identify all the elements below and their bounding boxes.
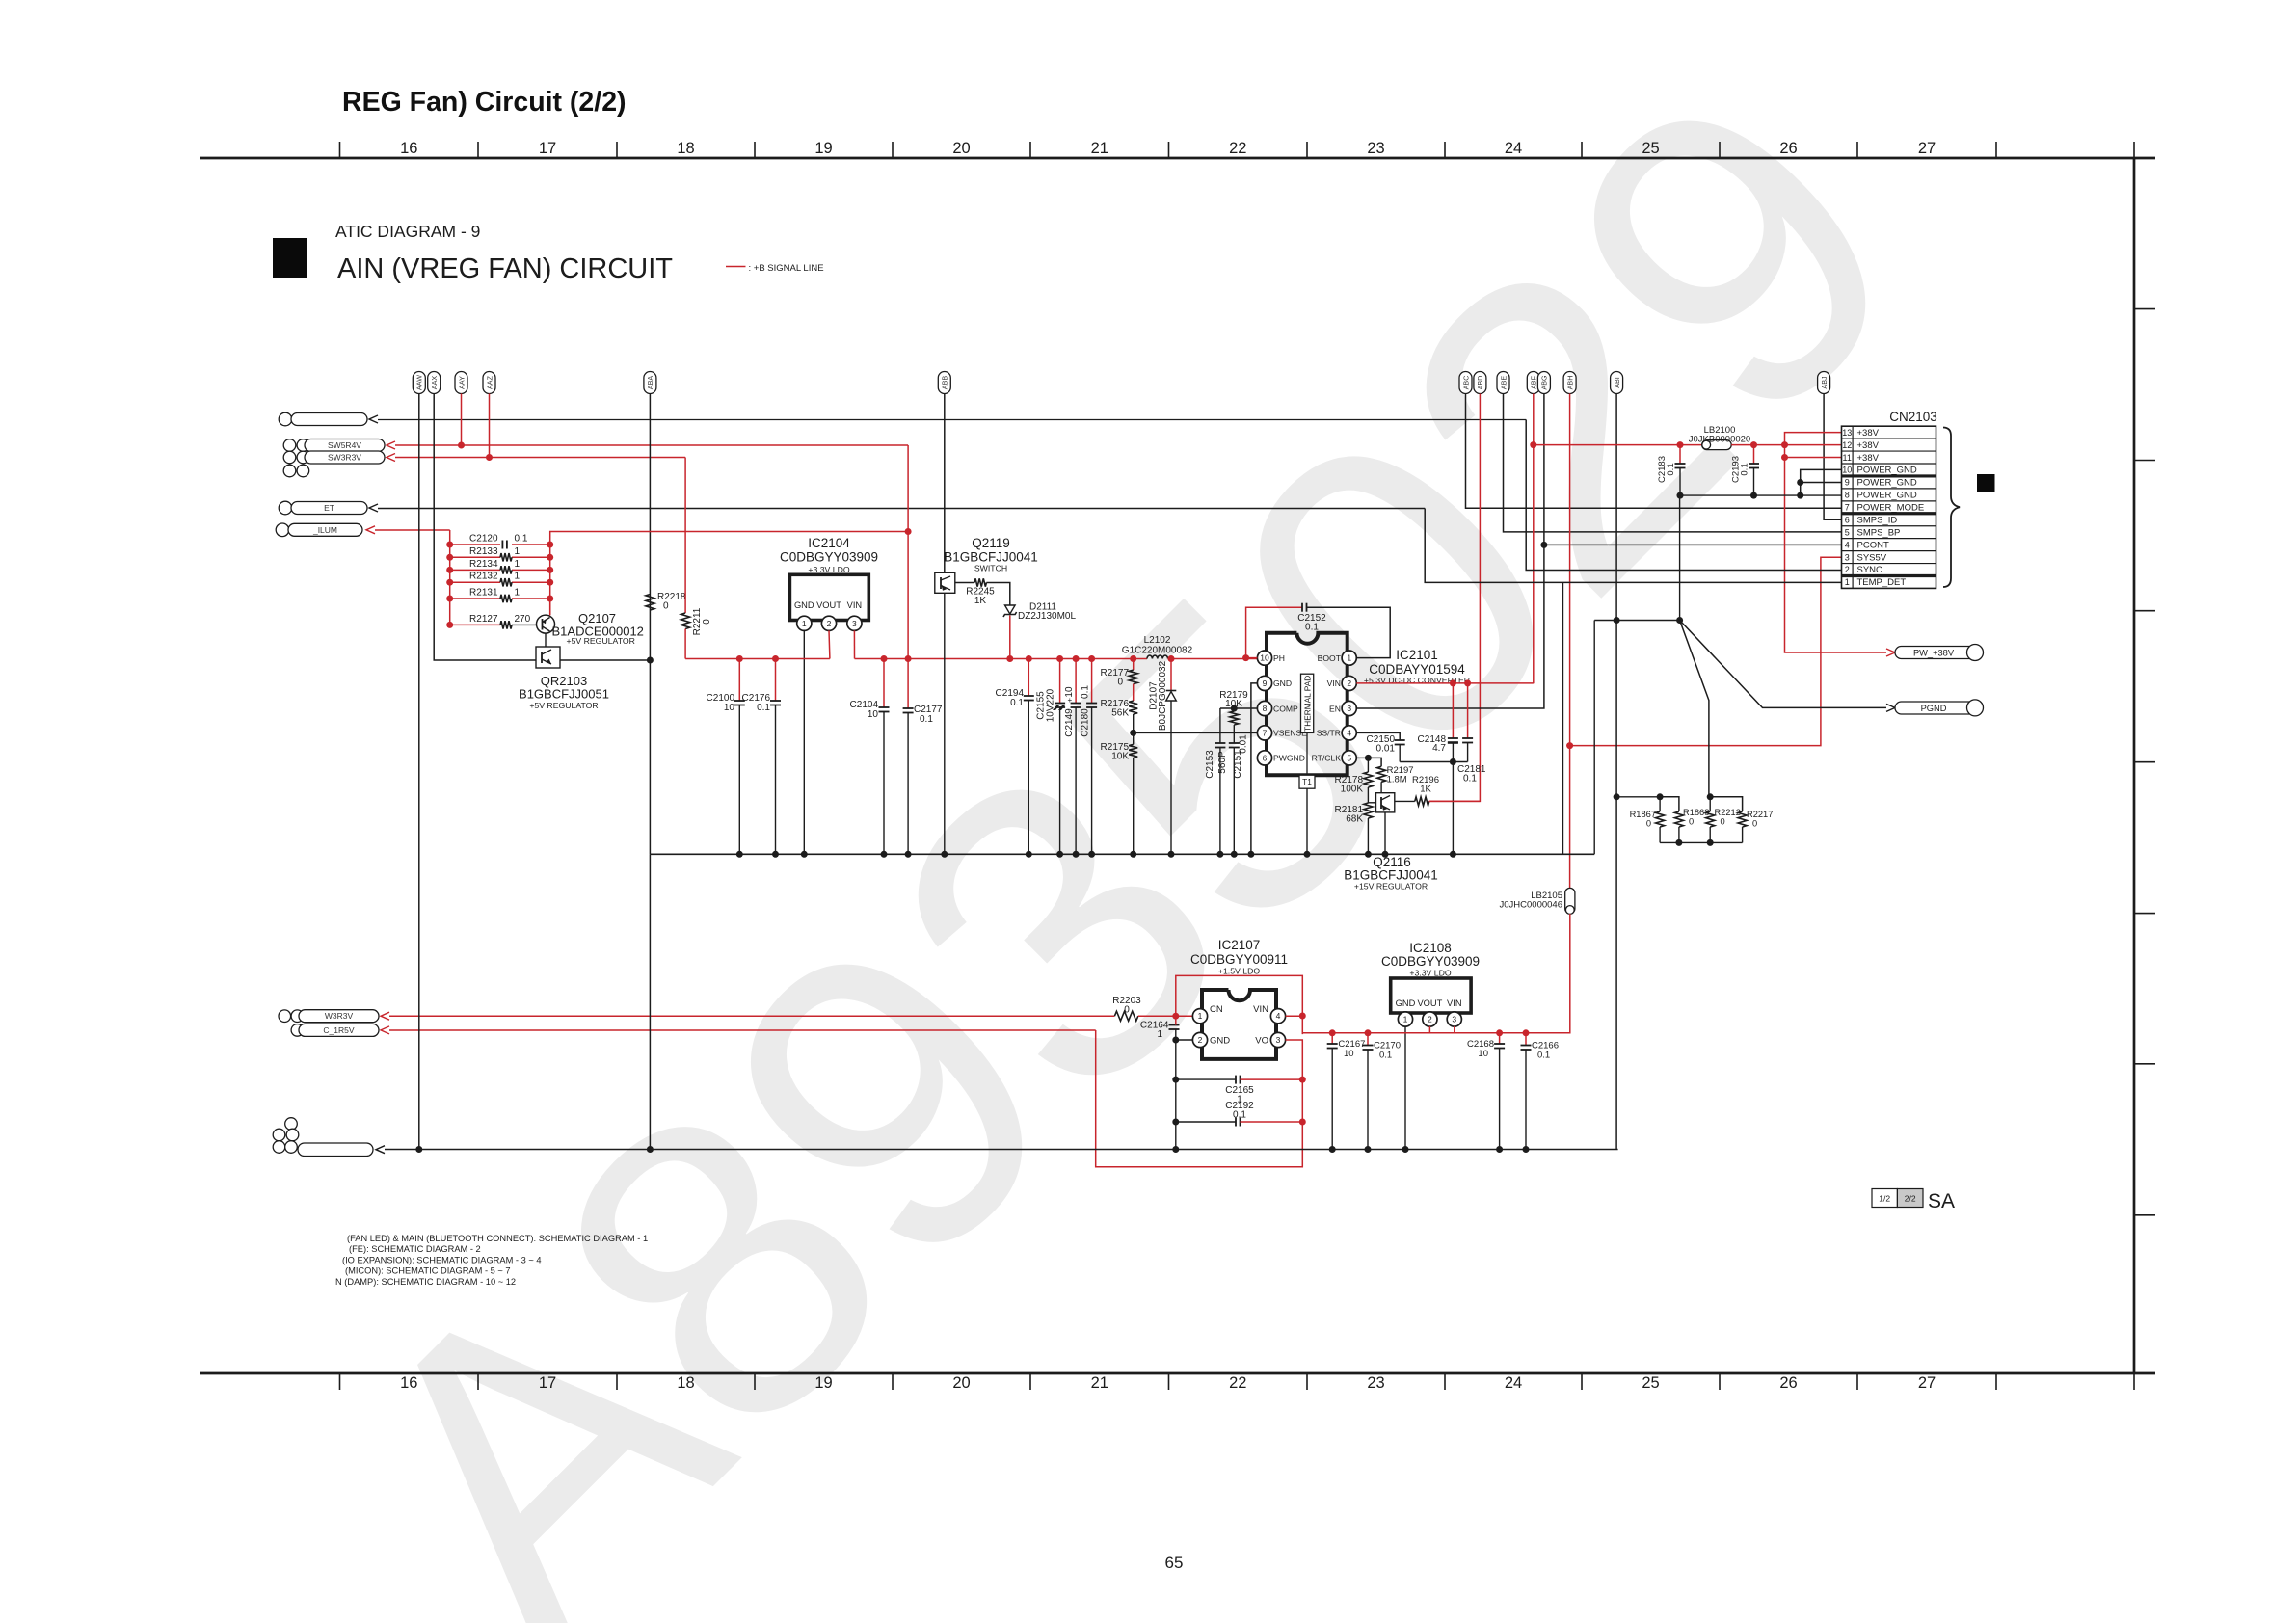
tag bubble ABI (1611, 372, 1623, 394)
ic IC2104 body (789, 574, 868, 620)
wire C2167 down (1331, 1049, 1333, 1150)
connector pill C_1R5V (299, 1024, 379, 1036)
stub C2155 (1059, 659, 1061, 704)
wire COMP drop (1219, 708, 1221, 743)
svg-text:R2212: R2212 (1715, 808, 1741, 817)
svg-text:PH: PH (1273, 653, 1285, 663)
red arrow PW_+38V (1886, 649, 1895, 656)
wire ABJ down to SMPS_ID (1824, 394, 1841, 520)
wire fan diag2 (1680, 621, 1886, 708)
wire SW3R3V (395, 457, 685, 459)
svg-text:VIN: VIN (1327, 678, 1341, 688)
junction R2175 bus (1130, 851, 1136, 858)
pin 8 IC2101 (1257, 701, 1271, 715)
svg-text:+3.3V LDO: +3.3V LDO (1409, 969, 1451, 978)
junction VIN c2148a (1450, 679, 1456, 686)
ladder right rail (550, 532, 908, 616)
stub R2177 (1133, 659, 1135, 671)
wire C2153 down (1219, 748, 1221, 855)
svg-text:AAZ: AAZ (485, 375, 494, 389)
svg-text:ET: ET (324, 503, 334, 513)
wire C2164 leads (1175, 1016, 1177, 1024)
legend +B signal line (726, 266, 746, 268)
thermal pad (1301, 674, 1314, 732)
pin 3 IC2101 (1342, 701, 1356, 715)
svg-text:0.01: 0.01 (1376, 744, 1396, 755)
resistor R2132 (500, 578, 512, 586)
svg-text:R2218: R2218 (657, 592, 686, 602)
svg-text:RT/CLK: RT/CLK (1312, 754, 1342, 763)
stub C2176 (775, 659, 777, 702)
wire C2192 left (1176, 1121, 1236, 1123)
svg-text:10: 10 (868, 709, 879, 720)
svg-text:0.1: 0.1 (920, 714, 933, 725)
connector via circle ET (279, 501, 292, 515)
svg-text:0.1: 0.1 (1081, 685, 1091, 699)
tag bubble AAZ (483, 372, 495, 394)
ground bus (650, 853, 1594, 855)
svg-text:POWER_GND: POWER_GND (1857, 491, 1917, 501)
svg-text:26: 26 (1779, 1374, 1797, 1392)
wire Q2116 base left (1368, 802, 1375, 804)
wire IC2104 VOUT down (828, 630, 831, 658)
wire SS/TR (1356, 732, 1400, 740)
svg-text:27: 27 (1918, 140, 1936, 157)
tag bubble ABC (1459, 372, 1472, 394)
stub C2104 (883, 659, 885, 708)
arrow into pill (369, 415, 378, 423)
wire W3R3V (389, 1015, 1114, 1017)
pin 1 IC2107 (1192, 1009, 1207, 1024)
junction C2193 top (1750, 441, 1757, 448)
pin 9 IC2101 (1257, 676, 1271, 690)
svg-text:7: 7 (1845, 503, 1850, 513)
wire bottom bus up right (1617, 1149, 1619, 1151)
svg-text:+38V: +38V (1857, 453, 1880, 464)
svg-text:0: 0 (1752, 818, 1757, 828)
capacitor C2155 electrolytic (1055, 703, 1065, 705)
wire C2148 bottoms (1452, 743, 1454, 762)
junction AAZ-SW3R3V (486, 454, 493, 461)
junction C2149 bus (1073, 851, 1080, 858)
svg-text:Q2119: Q2119 (972, 536, 1010, 550)
tag bubble ABA (644, 372, 656, 394)
svg-text:(FE): SCHEMATIC DIAGRAM - 2: (FE): SCHEMATIC DIAGRAM - 2 (349, 1244, 481, 1254)
svg-text:C0DBGYY03909: C0DBGYY03909 (780, 550, 878, 565)
wire C2155 down (1059, 707, 1061, 854)
svg-text:PCONT: PCONT (1857, 540, 1889, 550)
svg-text:ABJ: ABJ (1820, 376, 1829, 389)
wire VO red drop (1096, 1030, 1303, 1167)
wire pgnd link (1680, 494, 1801, 496)
red rail VIN segment (855, 658, 1148, 660)
capacitor C2148 (1448, 737, 1458, 739)
svg-text:C2149: C2149 (1064, 708, 1075, 737)
junction bottom R2212 (1707, 839, 1714, 846)
connector via circle ILUM (276, 523, 289, 537)
svg-text:J0JHC0000046: J0JHC0000046 (1500, 900, 1563, 911)
junction C2192 red (1299, 1119, 1306, 1126)
svg-text:2: 2 (1198, 1035, 1203, 1045)
svg-text:0.1: 0.1 (1379, 1051, 1392, 1061)
capacitor C2176 (770, 700, 781, 702)
svg-text:24: 24 (1505, 1374, 1522, 1392)
wire ABE down (1504, 394, 1842, 532)
wire AAY down (461, 394, 463, 446)
wire Q2116 collector right (1395, 800, 1415, 802)
svg-text:0.1: 0.1 (1463, 774, 1477, 785)
junction ABI resistor row (1614, 793, 1620, 800)
svg-text:4: 4 (1347, 728, 1351, 737)
svg-text:0.01: 0.01 (1239, 734, 1249, 754)
svg-text:11: 11 (1843, 453, 1852, 463)
svg-text:PW_+38V: PW_+38V (1913, 649, 1955, 658)
wire ladder row R2131 (450, 598, 500, 599)
svg-text:5: 5 (1845, 527, 1850, 537)
wire ABI down (1615, 394, 1617, 1150)
stub C2149 (1075, 659, 1077, 704)
resistor R2175 (1129, 744, 1137, 758)
junction C2176 bus (772, 851, 779, 858)
svg-text:ABD: ABD (1476, 376, 1484, 390)
tag bubble ABF (1527, 372, 1539, 394)
svg-text:ATIC DIAGRAM - 9: ATIC DIAGRAM - 9 (335, 222, 480, 241)
svg-text:B1GBCFJJ0041: B1GBCFJJ0041 (944, 550, 1038, 565)
svg-text:CN2103: CN2103 (1889, 410, 1937, 424)
svg-text:SWITCH: SWITCH (974, 564, 1007, 573)
wire C2165 right red (1241, 1078, 1303, 1080)
black square marker 2 (1977, 474, 1995, 492)
wire ABH down (1569, 394, 1571, 889)
stub C2193 (1753, 445, 1755, 464)
svg-text:7: 7 (1263, 728, 1268, 737)
wire C_1R5V (389, 1029, 1096, 1031)
resistor R2245 (974, 578, 986, 586)
svg-text:SMPS_ID: SMPS_ID (1857, 515, 1898, 525)
junction GND col C2165 (1172, 1077, 1179, 1083)
svg-text:R2127: R2127 (469, 614, 498, 625)
wire R2212 leads (1709, 797, 1711, 811)
junction VIN rail x1132.6 (1088, 655, 1095, 662)
red bus VOUT IC2108 (1302, 1032, 1570, 1034)
wire +38V to pin11 (1785, 445, 1842, 458)
svg-text:16: 16 (400, 140, 417, 157)
wire ABC down (1466, 394, 1842, 509)
junction C2166 bus (1523, 1146, 1530, 1153)
red arrow _ILUM (366, 526, 375, 534)
junction pgnd link c2183 (1677, 492, 1684, 499)
red loop IC2107 (1176, 975, 1303, 1034)
connector via circles (283, 465, 296, 477)
wire D2107 down (1170, 701, 1172, 854)
svg-text:PWGND: PWGND (1273, 754, 1305, 763)
red rail VOUT segment (685, 658, 830, 660)
resistor R2217 (1738, 811, 1747, 827)
svg-text:23: 23 (1367, 1374, 1384, 1392)
svg-text:1: 1 (802, 619, 807, 628)
svg-text:GND: GND (794, 600, 814, 610)
wire R1868 hook (1660, 797, 1679, 811)
svg-text:9: 9 (1845, 478, 1850, 488)
svg-text:1: 1 (1157, 1029, 1162, 1040)
svg-text:0.1: 0.1 (1740, 463, 1750, 475)
svg-text:R2177: R2177 (1101, 668, 1130, 678)
wire R2177-R2176 (1133, 684, 1135, 702)
svg-text:3: 3 (852, 619, 857, 628)
svg-text:GND: GND (1396, 998, 1416, 1008)
wire +38V to pin13 (1785, 433, 1842, 445)
transistor QR2103 (536, 647, 560, 668)
svg-text:5: 5 (1347, 753, 1351, 762)
svg-text:1: 1 (1845, 577, 1850, 587)
svg-text:1: 1 (515, 572, 521, 582)
wire Q2119 base (955, 582, 974, 584)
resistor R2203 (1114, 1011, 1137, 1021)
svg-text:AAY: AAY (457, 376, 466, 389)
wire SW5R4V drop (907, 445, 909, 708)
pin 4 IC2107 (1270, 1009, 1285, 1024)
wire IC2108 GND down (1404, 1026, 1406, 1150)
svg-text:(MICON): SCHEMATIC DIAGRAM - 5: (MICON): SCHEMATIC DIAGRAM - 5 ~ 7 (345, 1266, 511, 1276)
junction C2183 top (1677, 441, 1684, 448)
diode D2107 (1166, 692, 1177, 702)
wire ABG down to EN (1356, 394, 1544, 709)
svg-text:4: 4 (1276, 1011, 1281, 1021)
wire PH lead (1246, 657, 1258, 659)
connector pill ET (291, 502, 367, 515)
svg-text:0.1: 0.1 (1537, 1051, 1550, 1061)
svg-text:10: 10 (1260, 653, 1269, 663)
svg-text:10K: 10K (1111, 752, 1129, 762)
svg-text:3: 3 (1347, 704, 1351, 713)
wire power_gnd chain (1801, 469, 1842, 495)
junction pin9 chain (1797, 479, 1803, 486)
resistor R2133 (500, 553, 512, 561)
arrow into bottom pill (376, 1146, 385, 1154)
stub C2180 (1091, 659, 1093, 704)
wire temp gnd drop (1562, 582, 1564, 854)
junction ABG PCONT (1540, 542, 1547, 548)
capacitor C2151 (1229, 742, 1240, 744)
stub C2166 (1525, 1033, 1527, 1046)
svg-text:(FAN LED) & MAIN (BLUETOOTH CO: (FAN LED) & MAIN (BLUETOOTH CONNECT): SC… (347, 1234, 648, 1243)
svg-text:10: 10 (724, 703, 735, 713)
junction Q2116 bus (1382, 851, 1389, 858)
wire _ILUM (375, 529, 450, 531)
junction T1 bus (1304, 851, 1311, 858)
svg-text:17: 17 (539, 1374, 556, 1392)
wire res group bottom (1660, 841, 1743, 843)
ic IC2108 body (1391, 978, 1471, 1013)
stub C2100 (738, 659, 740, 702)
svg-text:B1GBCFJJ0051: B1GBCFJJ0051 (519, 687, 609, 702)
resistor R2196 (1415, 797, 1429, 806)
wire TEMP_DET (1425, 509, 1841, 583)
svg-text:2: 2 (1347, 678, 1351, 688)
junction ABF +38V line (1530, 441, 1536, 448)
svg-text:9: 9 (1263, 678, 1268, 688)
svg-text:VIN: VIN (1447, 998, 1462, 1008)
stub C2170 (1367, 1033, 1369, 1046)
svg-text:R2133: R2133 (469, 546, 498, 557)
junction VIN rail x1175.7 (1130, 655, 1136, 662)
svg-text:0: 0 (1689, 816, 1694, 826)
pin 6 IC2101 (1257, 751, 1271, 765)
wire pgnd drop (1679, 495, 1681, 620)
junction IC2104 GND bus (801, 851, 808, 858)
connector PW_+38V (1895, 647, 1983, 659)
svg-text:0: 0 (1721, 816, 1725, 826)
svg-text:19: 19 (814, 1374, 832, 1392)
svg-text:22: 22 (1229, 1374, 1246, 1392)
junction bottom R1868 (1675, 839, 1682, 846)
svg-text:POWER_GND: POWER_GND (1857, 466, 1917, 476)
svg-text:ABE: ABE (1499, 376, 1508, 390)
transistor Q2107 (537, 615, 555, 633)
junction ABA emitter row (647, 657, 654, 664)
wire ABA down (649, 394, 651, 855)
pin 1 IC2101 (1342, 651, 1356, 665)
junction pin9 bus (1247, 851, 1254, 858)
svg-text:8: 8 (1263, 704, 1268, 713)
wire GND pin2 (1176, 1039, 1193, 1041)
svg-text:R1868: R1868 (1683, 808, 1709, 817)
svg-text:68K: 68K (1346, 814, 1363, 825)
svg-text:100K: 100K (1341, 785, 1364, 795)
svg-text:0.1: 0.1 (515, 534, 528, 545)
svg-text:1: 1 (515, 546, 521, 557)
wire SYNC drop (1526, 420, 1841, 571)
wire fan diag1 (1680, 621, 1709, 797)
connector via circles (283, 439, 296, 452)
junction VIN rail x1116.1 (1073, 655, 1080, 662)
svg-text:26: 26 (1779, 140, 1797, 157)
svg-text:3: 3 (1845, 552, 1850, 562)
wire GND column (1175, 1040, 1177, 1150)
red arrow W3R3V (381, 1012, 389, 1020)
svg-text:25: 25 (1642, 140, 1659, 157)
svg-text:SS/TR: SS/TR (1317, 729, 1341, 738)
capacitor C2150 (1395, 739, 1405, 741)
junction C2153 bus (1216, 851, 1223, 858)
svg-text:: +B SIGNAL LINE: : +B SIGNAL LINE (749, 263, 824, 274)
tag bubble ABH (1563, 372, 1576, 394)
wire res group top left (1616, 796, 1660, 798)
zener diode D2111 (1005, 605, 1016, 614)
connector via cluster bottom (285, 1118, 298, 1131)
svg-text:+38V: +38V (1857, 428, 1880, 439)
svg-text:17: 17 (539, 140, 556, 157)
svg-text:+38V: +38V (1857, 440, 1880, 451)
junction VOUT rail 804.5 (772, 655, 779, 662)
svg-text:2: 2 (1845, 565, 1850, 574)
connector pill W3R3V (299, 1010, 379, 1023)
svg-text:GND: GND (1210, 1036, 1230, 1047)
unlabeled connector pill (291, 413, 367, 426)
svg-text:POWER_MODE: POWER_MODE (1857, 503, 1925, 514)
brace CN2103 (1943, 428, 1960, 588)
wire C2194 down (1028, 701, 1029, 855)
svg-text:ABB: ABB (941, 376, 949, 390)
SA page indicator (1872, 1189, 1897, 1208)
capacitor C2153 (1215, 742, 1225, 744)
svg-text:B0JCPG000032: B0JCPG000032 (1158, 660, 1168, 731)
svg-text:C0DBGYY00911: C0DBGYY00911 (1190, 952, 1288, 967)
wire C2104 down (883, 712, 885, 855)
wire AAW down to bottom bus (418, 394, 420, 1150)
wire ET (378, 508, 1425, 510)
connector pill _ILUM (288, 523, 362, 536)
junction C2194 bus (1026, 851, 1032, 858)
wire C2176 down (775, 705, 777, 855)
resistor R2127 (500, 621, 512, 628)
wire bottom ground bus lead (385, 1149, 419, 1151)
svg-text:POWER_GND: POWER_GND (1857, 478, 1917, 489)
svg-text:4: 4 (1845, 540, 1850, 549)
resistor R2176 (1129, 701, 1137, 714)
junction C2181 bus (1450, 851, 1456, 858)
transistor Q2119 (935, 572, 955, 593)
resistor R2211 (681, 613, 690, 629)
junction C2166 top (1523, 1029, 1530, 1036)
svg-text:0.1: 0.1 (1305, 623, 1319, 633)
junction C2167 bus (1329, 1146, 1336, 1153)
capacitor C2166 (1521, 1045, 1532, 1047)
resistor R1868 (1674, 811, 1683, 827)
ic IC2101 outline (1267, 633, 1348, 776)
junction VOUT rail 767.3 (736, 655, 743, 662)
svg-text:SW3R3V: SW3R3V (328, 453, 361, 463)
svg-text:SYS5V: SYS5V (1857, 552, 1887, 563)
junction VIN c2148b (1464, 679, 1471, 686)
wire ladder row R2132 (450, 581, 500, 583)
tag bubble AAX (428, 372, 441, 394)
svg-text:ABH: ABH (1565, 376, 1574, 390)
junction ABH SYS5V branch (1566, 742, 1573, 749)
junction SW5R4V rail (905, 655, 912, 662)
junction ABI fan row (1614, 617, 1620, 624)
svg-text:VIN: VIN (847, 600, 863, 610)
wire AAX down to QR2103 base (434, 394, 540, 661)
junction C2170 bus (1365, 1146, 1372, 1153)
wire Q2107 collector (549, 599, 551, 615)
svg-text:C0DBGYY03909: C0DBGYY03909 (1381, 954, 1480, 969)
junction C2168 bus (1496, 1146, 1503, 1153)
wire ladder row R2134 (450, 569, 500, 571)
svg-text:22: 22 (1229, 140, 1246, 157)
capacitor C2194 (1024, 695, 1034, 697)
svg-text:ABG: ABG (1540, 375, 1549, 390)
svg-text:R2217: R2217 (1747, 810, 1773, 819)
wire PCONT (1544, 544, 1842, 545)
svg-text:1: 1 (1347, 653, 1351, 663)
svg-text:ABF: ABF (1530, 375, 1538, 389)
capacitor C2148 pair (1462, 737, 1473, 739)
capacitor C2168 (1494, 1043, 1505, 1045)
svg-text:GND: GND (1273, 678, 1292, 688)
connector PGND (1895, 702, 1983, 714)
red rail PH segment (1168, 658, 1258, 660)
svg-text:ABI: ABI (1613, 377, 1621, 388)
wire IC2104 VIN down (853, 630, 855, 658)
svg-text:C2164: C2164 (1140, 1021, 1169, 1031)
pin 2 IC2101 (1342, 676, 1356, 690)
wire RT/CLK (1356, 757, 1368, 758)
svg-text:VOUT: VOUT (1417, 998, 1442, 1008)
svg-text:ABA: ABA (646, 376, 654, 390)
svg-text:0: 0 (1124, 1005, 1130, 1016)
junction VIN pin4 (1299, 1013, 1306, 1020)
